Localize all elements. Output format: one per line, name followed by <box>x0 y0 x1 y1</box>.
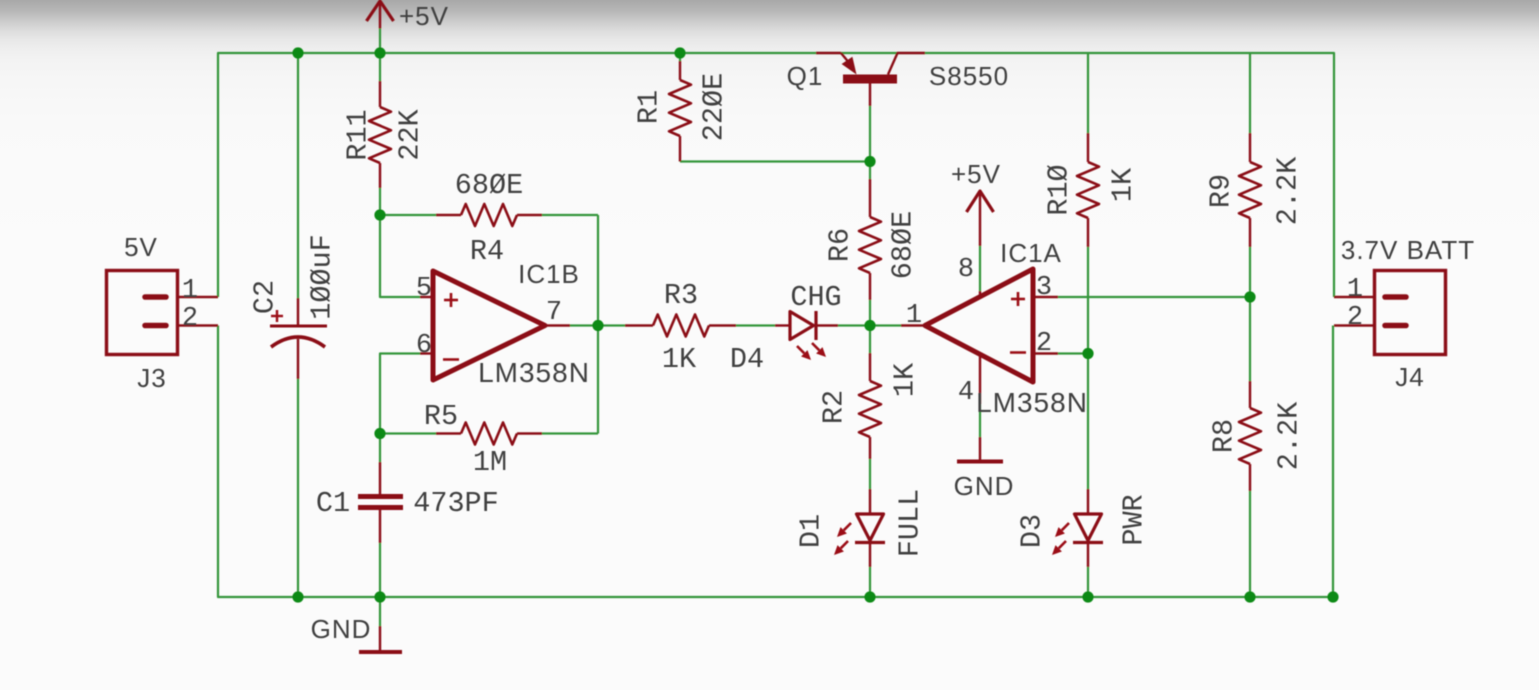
svg-text:8: 8 <box>958 255 974 285</box>
wire out to R3 <box>598 324 625 326</box>
wire +5V to IC1A pin8 <box>979 246 981 291</box>
label D3 <box>1016 514 1049 548</box>
wire R8 to GND bus <box>1249 491 1251 597</box>
label 2.2K R9 <box>1272 156 1305 225</box>
op-amp IC1A body <box>925 269 1033 382</box>
wire IC1A pin4 to GND <box>979 404 981 437</box>
label GND IC1A <box>954 471 1015 501</box>
wire Q1 base down <box>869 106 871 162</box>
svg-text:2: 2 <box>182 304 198 334</box>
svg-text:+5V: +5V <box>399 1 449 31</box>
svg-text:PWR: PWR <box>1118 494 1151 545</box>
wire IC1A pin3 row <box>1058 296 1250 298</box>
resistor R3 body <box>653 315 709 337</box>
svg-text:2: 2 <box>1347 303 1363 333</box>
wire R5 row left <box>380 432 436 434</box>
capacitor C1 plates <box>358 497 403 508</box>
label R2 <box>818 390 851 424</box>
resistor R9 pins <box>1249 133 1251 247</box>
label R9 <box>1205 174 1238 208</box>
label 1K R10 <box>1107 167 1140 202</box>
resistor R6 pins <box>869 179 871 300</box>
wire R9 bottom to divider node <box>1249 247 1251 297</box>
transistor Q1 base pin <box>869 84 871 107</box>
LED D4 light arrows <box>797 343 826 360</box>
label Q1 <box>787 61 824 91</box>
connector J3 body <box>107 271 178 355</box>
pin stub IC1A pin4 <box>979 355 981 404</box>
label J4 <box>1395 362 1424 392</box>
junction +5V rail / R11 <box>374 47 385 58</box>
junction R11-R4 / IC1B pin5 node <box>374 209 385 220</box>
LED D4 pins <box>775 324 838 326</box>
svg-text:R5: R5 <box>424 400 458 433</box>
svg-text:68ØE: 68ØE <box>887 211 920 279</box>
op-amp IC1B body <box>433 271 545 380</box>
label S8550 <box>929 61 1009 91</box>
svg-text:5: 5 <box>416 274 432 304</box>
connector J4 body <box>1375 271 1446 355</box>
junction GND bus / R8 <box>1244 591 1255 602</box>
wire divider node to R8 <box>1249 297 1251 381</box>
svg-text:D4: D4 <box>730 343 764 376</box>
power flag +5V top <box>367 1 394 53</box>
label R5 <box>424 400 458 433</box>
label +5V IC1A <box>951 159 1001 189</box>
wire D1 to GND bus <box>869 567 871 597</box>
junction +5V rail / C2 <box>292 47 303 58</box>
svg-text:J3: J3 <box>137 363 166 393</box>
junction +5V rail / R1 <box>674 47 685 58</box>
svg-text:GND: GND <box>954 471 1015 501</box>
svg-text:C1: C1 <box>316 487 350 520</box>
wire +5V top rail (J3 pin1 riser, top bus, J4 pin1 riser) <box>218 53 1334 297</box>
pin number J4-2 <box>1347 303 1363 333</box>
resistor R2 body <box>859 381 881 437</box>
LED D1 body <box>855 514 885 543</box>
pin number 8 <box>958 255 974 285</box>
resistor R4 pins <box>436 214 542 216</box>
pin number J4-1 <box>1347 275 1363 305</box>
pin stub IC1B pin5 <box>420 296 433 298</box>
resistor R5 body <box>461 423 517 445</box>
svg-text:R1: R1 <box>633 90 666 124</box>
wire CHG node to R2 <box>869 326 871 354</box>
wire IC1B pin7 out <box>570 324 598 326</box>
label 100uF <box>306 234 339 320</box>
LED D1 light arrows <box>834 523 851 555</box>
resistor R10 body <box>1077 162 1099 218</box>
resistor R4 body <box>461 204 517 226</box>
svg-text:1: 1 <box>1347 275 1363 305</box>
label R11 <box>342 109 375 160</box>
svg-text:22ØE: 22ØE <box>698 73 731 141</box>
wire GND bus (J3 pin2 riser, bottom bus, J4 pin2 riser) <box>218 326 1333 598</box>
resistor R10 pins <box>1087 133 1089 247</box>
op-amp IC1B minus sign <box>443 358 459 361</box>
pin number J3-2 <box>182 304 198 334</box>
label GND bottom <box>311 614 372 644</box>
junction IC1A pin3 / R9-R8 divider node <box>1244 291 1255 302</box>
svg-text:R8: R8 <box>1208 419 1241 453</box>
resistor R11 pins <box>379 81 381 188</box>
svg-text:473PF: 473PF <box>413 487 499 520</box>
resistor R2 pins <box>869 353 871 459</box>
svg-text:5V: 5V <box>124 232 158 262</box>
label 1M <box>473 446 507 479</box>
svg-text:FULL: FULL <box>894 489 927 557</box>
label IC1B <box>518 259 580 289</box>
wire node to R6 <box>869 162 871 180</box>
svg-text:6: 6 <box>416 331 432 361</box>
pin number 4 <box>958 378 974 408</box>
op-amp IC1B plus sign <box>444 293 458 307</box>
transistor Q1 emitter <box>816 53 857 75</box>
svg-text:2.2K: 2.2K <box>1272 156 1305 225</box>
wire R1 top <box>679 53 681 61</box>
resistor R3 pins <box>625 324 736 326</box>
label R8 <box>1208 419 1241 453</box>
wire R1 bottom to Q1 base node <box>680 160 870 162</box>
label R1 <box>633 90 666 124</box>
wire IC1B pin6 to C1 node <box>380 354 420 434</box>
svg-text:J4: J4 <box>1395 362 1424 392</box>
resistor R8 body <box>1239 408 1261 464</box>
label R4 <box>470 235 504 268</box>
wire R10 bottom to pin2 node <box>1087 247 1089 354</box>
svg-text:LM358N: LM358N <box>976 387 1088 418</box>
transistor Q1 collector <box>888 53 925 75</box>
svg-text:R4: R4 <box>470 235 504 268</box>
svg-text:3: 3 <box>1036 273 1052 303</box>
svg-text:R6: R6 <box>824 228 857 262</box>
wire R2 to D1 <box>869 459 871 489</box>
pin line J3 pin1 <box>178 296 218 298</box>
wire IC1A pin2 row <box>1058 352 1088 354</box>
pin number 5 <box>416 274 432 304</box>
capacitor C2 plus sign <box>271 310 283 322</box>
transistor Q1 base bar <box>843 75 897 84</box>
junction CHG node (R6/R2/D4/IC1A pin1) <box>864 320 875 331</box>
op-amp IC1A plus sign <box>1011 292 1025 306</box>
svg-text:3.7V BATT: 3.7V BATT <box>1341 235 1475 265</box>
power flag +5V at IC1A pin8 <box>967 191 994 246</box>
svg-text:1K: 1K <box>662 343 697 376</box>
svg-text:GND: GND <box>311 614 372 644</box>
pin number J3-1 <box>182 276 198 306</box>
wire R4 row left <box>380 214 436 216</box>
capacitor C1 pins <box>379 462 381 543</box>
wire pin2 node to D3 <box>1087 354 1089 490</box>
junction GND bus / C1 / GND symbol <box>374 591 385 602</box>
label C1 <box>316 487 350 520</box>
svg-text:22K: 22K <box>394 108 427 160</box>
label 473PF <box>413 487 499 520</box>
LED D1 pins <box>869 489 871 567</box>
pin stub IC1A pin3 <box>1033 296 1058 298</box>
resistor R6 body <box>859 217 881 273</box>
wire R11 bottom to IC1B pin5 <box>380 188 420 297</box>
resistor R11 body <box>369 107 391 163</box>
svg-text:1: 1 <box>906 301 922 331</box>
junction GND bus / D3 <box>1082 591 1093 602</box>
junction IC1A pin2 / R10 node <box>1082 348 1093 359</box>
label 680E R4 <box>455 169 523 202</box>
wire R4 row right <box>542 214 598 216</box>
svg-text:IC1B: IC1B <box>518 259 580 289</box>
label D1 <box>795 514 828 548</box>
capacitor C2 plates <box>270 326 327 347</box>
svg-text:2.2K: 2.2K <box>1273 401 1306 470</box>
label FULL <box>894 489 927 557</box>
pin number 7 <box>546 298 562 328</box>
svg-text:1: 1 <box>182 276 198 306</box>
label IC1A <box>1000 238 1062 268</box>
resistor R8 pins <box>1249 381 1251 491</box>
wire D4 to node <box>838 324 870 326</box>
wire R3 to D4 <box>736 324 775 326</box>
svg-text:68ØE: 68ØE <box>455 169 523 202</box>
label 5V <box>124 232 158 262</box>
label R6 <box>824 228 857 262</box>
svg-text:+5V: +5V <box>951 159 1001 189</box>
label CHG <box>790 281 841 314</box>
wire R6 to CHG node <box>869 300 871 326</box>
LED D3 light arrows <box>1052 523 1069 555</box>
label 3.7V BATT <box>1341 235 1475 265</box>
resistor R5 pins <box>436 432 542 434</box>
svg-text:R1Ø: R1Ø <box>1043 164 1076 215</box>
resistor R9 body <box>1239 162 1261 218</box>
label PWR <box>1118 494 1151 545</box>
LED D4 body <box>790 311 816 340</box>
svg-text:IC1A: IC1A <box>1000 238 1062 268</box>
LED D3 pins <box>1087 489 1089 567</box>
label 1K R3 <box>662 343 697 376</box>
label J3 <box>137 363 166 393</box>
svg-text:4: 4 <box>958 378 974 408</box>
svg-text:R2: R2 <box>818 390 851 424</box>
label 22K <box>394 108 427 160</box>
svg-text:R11: R11 <box>342 109 375 160</box>
wire R10 top <box>1087 53 1089 133</box>
wire D3 to GND bus <box>1087 567 1089 597</box>
pin number 6 <box>416 331 432 361</box>
svg-text:CHG: CHG <box>790 281 841 314</box>
svg-text:1K: 1K <box>1107 167 1140 202</box>
svg-text:1K: 1K <box>889 362 922 397</box>
junction R1 / Q1 base / R6 node <box>864 156 875 167</box>
pin line J4 pin1 <box>1334 296 1374 298</box>
svg-text:LM358N: LM358N <box>478 357 590 388</box>
label 220E <box>698 73 731 141</box>
pin number 1 <box>906 301 922 331</box>
svg-text:R3: R3 <box>664 279 698 312</box>
svg-text:D3: D3 <box>1016 514 1049 548</box>
junction GND bus / D1 <box>864 591 875 602</box>
junction GND bus / C2 <box>292 591 303 602</box>
wire R5 row right <box>542 432 598 434</box>
LED D3 body <box>1073 514 1103 543</box>
label 680E R6 <box>887 211 920 279</box>
wire C1 bottom <box>379 543 381 597</box>
svg-text:1ØØuF: 1ØØuF <box>306 234 339 320</box>
label R3 <box>664 279 698 312</box>
pin stub IC1B pin6 <box>420 352 433 354</box>
wire GND stem bottom <box>379 597 381 626</box>
svg-text:1M: 1M <box>473 446 507 479</box>
pin stub IC1A pin1 <box>901 324 925 326</box>
wire C1 top <box>379 434 381 463</box>
resistor R1 body <box>669 80 691 136</box>
wire feedback riser <box>597 215 599 434</box>
pin line J4 pin2 <box>1334 324 1374 326</box>
label LM358N IC1A <box>976 387 1088 418</box>
pin number 2 <box>1036 329 1052 359</box>
label C2 <box>249 280 282 314</box>
wire C2 top <box>297 53 299 298</box>
resistor R1 pins <box>679 61 681 162</box>
label +5V top <box>399 1 449 31</box>
label 1K R2 <box>889 362 922 397</box>
junction IC1B output node <box>592 320 603 331</box>
svg-text:2: 2 <box>1036 329 1052 359</box>
svg-text:D1: D1 <box>795 514 828 548</box>
wire node to IC1A pin1 <box>870 324 901 326</box>
pin number 3 <box>1036 273 1052 303</box>
label LM358N IC1B <box>478 357 590 388</box>
svg-text:S8550: S8550 <box>929 61 1009 91</box>
pin stub IC1B pin7 <box>545 324 570 326</box>
label R10 <box>1043 164 1076 215</box>
junction GND bus / J4 riser <box>1327 591 1338 602</box>
svg-text:7: 7 <box>546 298 562 328</box>
label D4 <box>730 343 764 376</box>
svg-text:R9: R9 <box>1205 174 1238 208</box>
wire R9 top <box>1249 53 1251 133</box>
junction IC1B pin6 / R5 / C1 node <box>374 428 385 439</box>
svg-text:C2: C2 <box>249 280 282 314</box>
ground symbol below IC1A pin4 <box>957 437 1003 462</box>
svg-text:Q1: Q1 <box>787 61 824 91</box>
op-amp IC1A minus sign <box>1010 351 1026 354</box>
wire C2 bottom <box>297 379 299 597</box>
pin line J3 pin2 <box>178 324 218 326</box>
wire R11 top <box>379 53 381 81</box>
capacitor C2 pins <box>297 298 299 379</box>
pin stub IC1A pin2 <box>1033 352 1058 354</box>
pin stub IC1A pin8 <box>979 291 981 297</box>
ground symbol below C1 <box>359 626 402 652</box>
label 2.2K R8 <box>1273 401 1306 470</box>
